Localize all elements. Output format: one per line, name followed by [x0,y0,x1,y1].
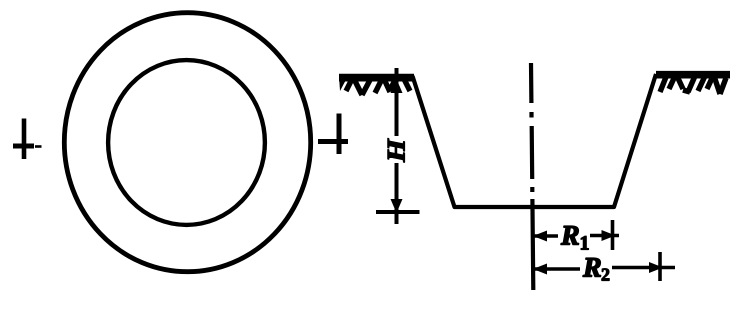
left centerline cross mark [13,119,42,160]
H dimension line [376,68,420,224]
outer circle (pit top edge, plan view) [64,13,310,272]
vertical centerline (dash-dot) of section [531,63,533,290]
label R2 [583,258,601,276]
H top arrow [391,79,403,93]
R2 dimension line [533,252,675,281]
R1 right arrow [602,230,616,241]
right ground line (section) [656,71,730,76]
H bottom arrow [391,199,403,213]
R1 left arrow at centerline [533,231,547,242]
pit profile: left slope, bottom, right slope [413,74,657,207]
right centerline cross mark [318,114,348,155]
R1 extension tick [611,220,615,250]
R2 right arrow [649,262,663,273]
R2 extension tick [658,252,662,281]
right ground hatching [656,71,730,94]
inner circle (pit bottom edge, plan view) [108,60,265,225]
label H [388,138,405,162]
left ground line (section) [339,74,414,80]
R2 left arrow at centerline [533,264,547,275]
label R1 [561,226,579,244]
left ground hatching [339,74,414,95]
bottom level extension line [376,210,420,214]
R1 dimension line [533,220,619,250]
